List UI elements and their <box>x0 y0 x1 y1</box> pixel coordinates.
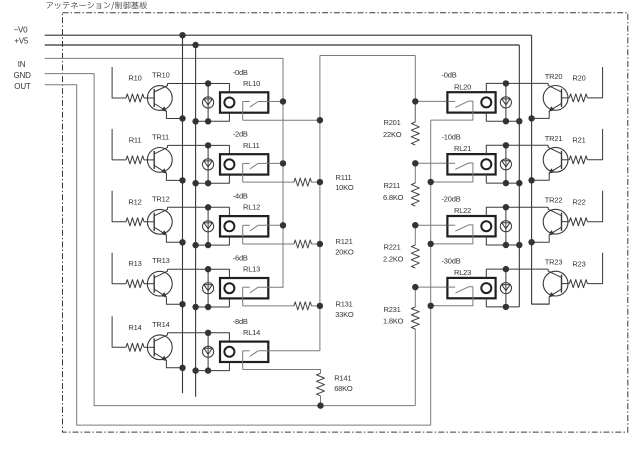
svg-text:22KO: 22KO <box>383 130 402 139</box>
wire R22 to control stub <box>587 191 602 222</box>
wire TR12 collector / LED / coil top <box>168 207 230 216</box>
relay RL22 switch contact <box>447 225 473 231</box>
transistor TR13 <box>147 269 172 297</box>
svg-text:TR14: TR14 <box>152 320 170 329</box>
wire coil/LED bottom to +V5 rail <box>196 362 230 371</box>
wire coil top / LED / TR23 collector <box>486 269 548 278</box>
svg-text:33KO: 33KO <box>335 310 354 319</box>
svg-text:RL11: RL11 <box>243 141 260 150</box>
svg-text:R23: R23 <box>572 259 585 268</box>
svg-text:-0dB: -0dB <box>442 71 457 80</box>
svg-text:R201: R201 <box>384 118 401 127</box>
wire RL23 switch to common line <box>431 287 473 306</box>
node chain tap RL20 <box>415 100 447 102</box>
transistor TR22 <box>543 207 568 235</box>
relay RL23 <box>447 278 495 298</box>
transistor TR20 <box>543 83 568 111</box>
svg-text:RL22: RL22 <box>454 206 471 215</box>
resistor R141 <box>317 373 325 396</box>
wire TR11 collector / LED / coil top <box>168 145 230 154</box>
svg-text:-0dB: -0dB <box>233 68 248 77</box>
wire coil/LED bottom to +V5 rail <box>486 236 519 245</box>
LED indicator row RL22 <box>500 207 511 245</box>
transistor TR10 <box>147 84 172 112</box>
svg-text:R11: R11 <box>129 135 142 144</box>
relay RL14 <box>220 342 268 362</box>
svg-text:-8dB: -8dB <box>233 317 248 326</box>
wire RL14 switch moving contact down <box>242 351 244 370</box>
wire TR10 collector / LED / coil top <box>168 84 230 93</box>
wire chain bottom to GND line <box>414 329 416 406</box>
svg-text:R121: R121 <box>336 237 353 246</box>
wire -V0 left rail <box>182 35 184 393</box>
svg-text:IN: IN <box>18 60 26 69</box>
wire RL12 switch to IN line <box>258 224 283 226</box>
wire chain segment above R211 <box>414 163 416 183</box>
relay RL21 <box>447 154 495 174</box>
LED indicator row RL10 <box>203 84 214 122</box>
resistor R231 <box>411 307 419 329</box>
wire coil/LED bottom to +V5 rail <box>196 174 230 183</box>
relay RL11 <box>220 154 268 174</box>
wire GND line to bottom <box>45 74 416 406</box>
wire TR21 emitter to -V0 rail <box>532 173 550 181</box>
svg-text:10KO: 10KO <box>335 183 354 192</box>
LED indicator row RL12 <box>203 207 214 245</box>
LED indicator row RL20 <box>500 83 511 121</box>
resistor R11 <box>126 156 144 164</box>
wire RL12 output <box>243 243 294 245</box>
wire TR11 emitter to -V0 rail <box>166 173 182 181</box>
wire OUT line to bottom <box>45 85 431 425</box>
relay RL22 <box>447 216 495 236</box>
svg-text:2.2KO: 2.2KO <box>383 255 404 264</box>
wire R141 to GND line <box>320 396 322 406</box>
wire -V0 supply line <box>45 34 532 36</box>
resistor R20 <box>562 97 570 99</box>
svg-text:RL10: RL10 <box>243 79 260 88</box>
svg-text:-6dB: -6dB <box>233 254 248 263</box>
resistor R14 <box>126 343 144 351</box>
wire IN signal line <box>45 58 283 287</box>
svg-text:RL21: RL21 <box>454 144 471 153</box>
svg-text:R231: R231 <box>384 305 401 314</box>
wire -V0 right rail <box>532 35 550 304</box>
svg-text:TR13: TR13 <box>152 256 170 265</box>
wire R23 to control stub <box>587 253 602 284</box>
transistor TR12 <box>147 207 172 235</box>
svg-text:TR12: TR12 <box>152 194 170 203</box>
svg-text:TR22: TR22 <box>545 196 563 205</box>
wire TR10 emitter to -V0 rail <box>166 111 182 119</box>
wire R20 to control stub <box>587 67 602 98</box>
svg-text:-4dB: -4dB <box>233 192 248 201</box>
wire coil/LED bottom to +V5 rail <box>196 113 230 122</box>
transistor TR14 <box>147 333 172 361</box>
wire RL20 switch to common line <box>431 101 473 120</box>
wire TR22 emitter to -V0 rail <box>532 235 550 243</box>
wire coil/LED bottom to +V5 rail <box>486 112 519 121</box>
wire TR14 collector / LED / coil top <box>168 333 230 342</box>
wire +V5 left rail <box>195 45 197 397</box>
wire +V5 right rail <box>518 45 520 307</box>
wire chain segment above R221 <box>414 225 416 245</box>
wire coil/LED bottom to +V5 rail <box>196 298 230 307</box>
resistor R221 <box>411 245 419 268</box>
relay RL13 <box>220 278 268 298</box>
LED indicator row RL21 <box>500 145 511 183</box>
wire chain segment above R201 <box>414 101 416 122</box>
wire RL11 switch moving contact down <box>242 163 244 182</box>
wire RL10 output direct to node B (0dB) <box>243 119 320 121</box>
svg-text:-20dB: -20dB <box>442 194 461 203</box>
resistor R121 <box>294 240 312 248</box>
svg-text:R20: R20 <box>572 74 585 83</box>
LED indicator row RL11 <box>203 145 214 183</box>
svg-text:R12: R12 <box>128 197 141 206</box>
relay RL14 switch contact <box>243 351 258 357</box>
svg-text:RL13: RL13 <box>243 265 260 274</box>
wire TR23 emitter to -V0 rail <box>532 297 550 305</box>
svg-text:RL20: RL20 <box>454 82 471 91</box>
relay RL12 <box>220 216 268 236</box>
resistor R131 <box>294 302 312 310</box>
svg-text:RL12: RL12 <box>243 203 260 212</box>
LED indicator row RL13 <box>203 269 214 307</box>
resistor R201 <box>411 122 419 145</box>
relay RL20 <box>447 92 495 112</box>
svg-text:−V0: −V0 <box>14 26 29 35</box>
svg-text:R13: R13 <box>128 259 141 268</box>
resistor R111 <box>294 178 312 186</box>
svg-text:-30dB: -30dB <box>442 256 461 265</box>
svg-text:R14: R14 <box>128 323 141 332</box>
relay RL23 switch contact <box>447 287 473 293</box>
svg-text:-10dB: -10dB <box>442 133 461 142</box>
relay RL13 switch contact <box>243 287 258 293</box>
svg-text:TR11: TR11 <box>152 132 169 141</box>
svg-text:6.8KO: 6.8KO <box>383 193 404 202</box>
transistor TR21 <box>543 145 568 173</box>
wire TR14 emitter to -V0 rail <box>166 360 182 368</box>
wire coil/LED bottom to +V5 rail <box>196 236 230 245</box>
wire TR13 collector / LED / coil top <box>168 269 230 278</box>
resistor R22 <box>562 221 570 223</box>
svg-text:TR20: TR20 <box>545 72 563 81</box>
wire RL14 output <box>243 370 321 374</box>
wire chain segment above R231 <box>414 287 416 307</box>
relay RL12 switch contact <box>243 225 258 231</box>
wire RL11 output <box>243 181 294 183</box>
wire coil top / LED / TR20 collector <box>486 83 548 92</box>
transistor TR11 <box>147 145 172 173</box>
wire +V5 supply line <box>45 44 520 46</box>
node chain tap RL23 <box>415 286 447 288</box>
relay RL11 switch contact <box>243 163 258 169</box>
svg-text:+V5: +V5 <box>14 37 29 46</box>
wire coil/LED bottom to +V5 rail <box>486 298 519 307</box>
wire TR13 emitter to -V0 rail <box>166 297 182 305</box>
svg-text:R21: R21 <box>572 136 585 145</box>
wire RL13 switch moving contact down <box>242 287 244 306</box>
resistor R12 <box>126 218 144 226</box>
svg-text:1.8KO: 1.8KO <box>383 317 404 326</box>
wire RL14 switch to node B end <box>258 350 320 352</box>
svg-text:R10: R10 <box>128 74 141 83</box>
relay RL21 switch contact <box>447 163 473 169</box>
title アッテネーション/制御基板 <box>47 1 147 9</box>
svg-text:RL14: RL14 <box>243 328 260 337</box>
relay RL20 switch contact <box>447 101 473 107</box>
node control input stub row TR11 <box>112 129 126 160</box>
node control input stub row TR12 <box>112 191 126 222</box>
wire RL13 switch to IN line end <box>258 286 283 288</box>
svg-text:OUT: OUT <box>14 82 31 91</box>
wire RL12 switch moving contact down <box>242 225 244 244</box>
svg-text:TR21: TR21 <box>545 134 563 143</box>
resistor R23 <box>562 283 570 285</box>
wire TR12 emitter to -V0 rail <box>166 235 182 243</box>
node chain tap RL21 <box>415 162 447 164</box>
wire RL11 switch to IN line <box>258 162 283 164</box>
svg-text:68KO: 68KO <box>334 384 353 393</box>
wire R21 to control stub <box>587 129 602 160</box>
LED indicator row RL14 <box>203 333 214 371</box>
wire coil top / LED / TR21 collector <box>486 145 548 154</box>
wire TR20 emitter to -V0 rail <box>532 111 550 119</box>
resistor R21 <box>562 159 570 161</box>
svg-text:R22: R22 <box>572 198 585 207</box>
svg-text:R141: R141 <box>334 374 351 383</box>
resistor R13 <box>126 280 144 288</box>
node control input stub row TR13 <box>112 253 126 284</box>
wire coil top / LED / TR22 collector <box>486 207 548 216</box>
svg-text:RL23: RL23 <box>454 268 471 277</box>
resistor R10 <box>126 94 144 102</box>
wire coil/LED bottom to +V5 rail <box>486 174 519 183</box>
LED indicator row RL23 <box>500 269 511 307</box>
svg-text:R211: R211 <box>384 181 401 190</box>
relay RL10 switch contact <box>243 102 258 108</box>
wire RL10 switch to IN line <box>258 101 283 103</box>
svg-text:TR10: TR10 <box>152 71 170 80</box>
svg-text:GND: GND <box>14 71 32 80</box>
resistor R211 <box>411 183 419 206</box>
svg-text:R221: R221 <box>384 243 401 252</box>
node control input stub row TR14 <box>112 316 126 347</box>
wire node B to divider chain top link <box>320 55 415 57</box>
wire RL10 switch moving contact down <box>242 102 244 121</box>
relay RL10 <box>220 92 268 112</box>
wire RL22 switch to common line <box>431 225 473 244</box>
wire right switch-common line to OUT <box>430 120 432 425</box>
wire node B vertical (attenuator tap bus) <box>319 56 321 351</box>
svg-text:TR23: TR23 <box>545 258 563 267</box>
wire RL21 switch to common line <box>431 163 473 182</box>
wire RL13 output <box>243 305 294 307</box>
svg-text:R111: R111 <box>336 173 352 182</box>
svg-text:R131: R131 <box>336 299 353 308</box>
svg-text:-2dB: -2dB <box>233 130 248 139</box>
node chain tap RL22 <box>415 224 447 226</box>
wire divider chain line top segment <box>414 56 416 123</box>
node control input stub row TR10 <box>112 67 126 98</box>
transistor TR23 <box>543 269 568 297</box>
svg-text:20KO: 20KO <box>335 248 354 257</box>
